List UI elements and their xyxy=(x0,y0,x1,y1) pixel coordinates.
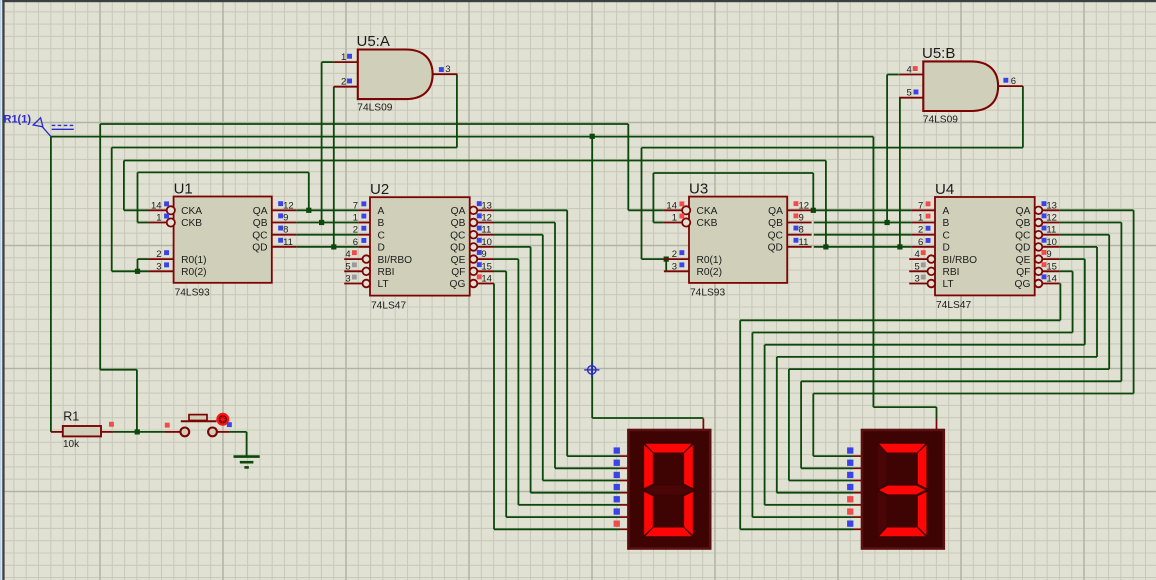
svg-text:9: 9 xyxy=(481,249,486,260)
svg-text:13: 13 xyxy=(481,200,492,211)
wire drop to U3 CKA xyxy=(628,124,664,210)
svg-text:3: 3 xyxy=(156,261,161,272)
logic state indicator DS1 segment e xyxy=(614,496,620,502)
svg-text:4: 4 xyxy=(907,65,912,76)
wire U1 CKA lead xyxy=(124,161,149,211)
wire branch to U1 R0(1) xyxy=(138,259,149,271)
svg-text:QB: QB xyxy=(451,218,466,229)
svg-text:9: 9 xyxy=(799,213,804,224)
pin number 4 (U2) xyxy=(345,249,350,260)
svg-text:U1: U1 xyxy=(174,180,193,197)
wire U3.QD to U1.CKA bus y=160.5 xyxy=(124,160,826,162)
svg-text:5: 5 xyxy=(345,261,350,272)
svg-text:12: 12 xyxy=(481,213,492,224)
wire U1.QA to U2.A xyxy=(296,209,358,211)
svg-text:QD: QD xyxy=(450,243,465,254)
logic state indicator U2 pin 13 xyxy=(477,201,482,206)
svg-text:6: 6 xyxy=(1011,76,1016,87)
wire U5:B pin4 from U3.QB xyxy=(887,75,899,223)
svg-text:12: 12 xyxy=(283,200,294,211)
label U1 xyxy=(174,180,193,197)
DS2 segment pin stubs xyxy=(853,419,937,529)
logic state indicator U2 pin 7 xyxy=(361,201,366,206)
logic state indicator U3 pin 14 xyxy=(679,201,684,206)
svg-text:7: 7 xyxy=(353,200,358,211)
svg-text:A: A xyxy=(943,206,950,217)
pin number 14 (U1) xyxy=(151,200,162,211)
logic state indicator U4 pin 4 xyxy=(921,250,926,255)
svg-text:3: 3 xyxy=(345,274,350,285)
logic state indicator U2 pin 11 xyxy=(477,226,482,231)
wire U4.QE to DS2 segment e xyxy=(765,259,1085,505)
svg-text:3: 3 xyxy=(672,261,677,272)
value 74LS47 (U4) xyxy=(936,300,971,311)
svg-text:QB: QB xyxy=(768,218,783,229)
pin number 15 (U4) xyxy=(1046,261,1057,272)
pin number 11 (U2) xyxy=(481,225,491,236)
wire U1.QD to U2.D xyxy=(296,246,358,248)
pin number 11 (U3) xyxy=(799,237,809,248)
wire U5:A pin2 from U1.QD xyxy=(333,87,335,247)
DS1 segment pin stubs xyxy=(619,419,703,530)
logic state indicator U3 pin 8 xyxy=(794,226,799,231)
svg-text:8: 8 xyxy=(283,225,288,236)
wire U1.QC to U2.C xyxy=(296,234,358,236)
svg-text:74LS93: 74LS93 xyxy=(690,288,725,299)
logic state indicator U1 pin 8 xyxy=(278,226,283,231)
svg-text:QB: QB xyxy=(253,218,268,229)
logic state indicator DS2 segment g xyxy=(847,521,853,527)
svg-text:74LS09: 74LS09 xyxy=(357,103,392,114)
pin number 3 (U4) xyxy=(915,274,920,285)
svg-text:C: C xyxy=(378,230,385,241)
pin number 6 (U5:B) xyxy=(1011,76,1016,87)
value 74LS93 (U1) xyxy=(175,288,210,299)
svg-text:QD: QD xyxy=(768,243,783,254)
net label R1(1) probe xyxy=(4,114,74,137)
pin number 13 (U4) xyxy=(1046,200,1057,211)
logic state indicator U4 pin 11 xyxy=(1042,226,1047,231)
pin number 11 (U1) xyxy=(283,237,293,248)
svg-text:1: 1 xyxy=(918,213,923,224)
svg-text:R0(2): R0(2) xyxy=(697,267,722,278)
svg-text:5: 5 xyxy=(915,261,920,272)
logic state indicator DS1 segment f xyxy=(614,508,620,514)
IC U1 74LS93 counter xyxy=(149,197,297,283)
pin number 6 (U4) xyxy=(918,237,923,248)
junction U3 QA row xyxy=(811,208,816,213)
pin number 9 (U1) xyxy=(283,213,288,224)
svg-text:11: 11 xyxy=(799,237,809,248)
svg-text:6: 6 xyxy=(353,237,358,248)
7-segment display DS1 xyxy=(628,430,710,549)
wire U5:A output drop xyxy=(456,74,458,147)
svg-text:74LS47: 74LS47 xyxy=(371,300,406,311)
pin number 3 (U3) xyxy=(672,261,677,272)
svg-text:A: A xyxy=(378,206,385,217)
value 10k (R1) xyxy=(63,439,80,450)
logic state indicator U2 pin 4 xyxy=(352,250,357,255)
wire U2.QA to DS1 segment a xyxy=(494,210,619,456)
svg-text:1: 1 xyxy=(156,213,161,224)
pin number 7 (U2) xyxy=(353,200,358,211)
svg-text:2: 2 xyxy=(918,225,923,236)
svg-text:13: 13 xyxy=(1046,200,1057,211)
svg-text:QA: QA xyxy=(1016,206,1031,217)
svg-text:B: B xyxy=(943,218,950,229)
logic state indicator U3 pin 11 xyxy=(794,238,799,243)
logic state indicator U4 pin 2 xyxy=(926,226,931,231)
wire U3.QD to U4.D xyxy=(814,246,912,248)
logic state indicator U2 pin 14 xyxy=(477,274,482,279)
svg-text:QC: QC xyxy=(1015,230,1030,241)
pin number 2 (U3) xyxy=(672,249,677,260)
svg-text:LT: LT xyxy=(943,279,954,290)
svg-text:74LS93: 74LS93 xyxy=(175,288,210,299)
svg-text:R1(1): R1(1) xyxy=(4,114,32,126)
svg-text:QA: QA xyxy=(253,206,268,217)
pin number 3 (U2) xyxy=(345,274,350,285)
svg-text:QD: QD xyxy=(252,243,267,254)
svg-text:B: B xyxy=(378,218,385,229)
label U5:A xyxy=(357,33,390,50)
wire U4.QB to DS2 segment b xyxy=(801,223,1121,469)
IC U2 74LS47 BCD to 7-seg decoder xyxy=(344,197,494,295)
wire U2.QD to DS1 segment d xyxy=(494,247,619,493)
AND gate U5:A 74LS09 xyxy=(334,50,458,100)
svg-text:2: 2 xyxy=(156,249,161,260)
logic state indicator U4 pin 13 xyxy=(1042,201,1047,206)
logic state indicator U1 pin 1 xyxy=(164,214,169,219)
label R1 xyxy=(63,409,79,423)
button actuator marker xyxy=(218,414,229,425)
wire U2.QE to DS1 segment e xyxy=(494,259,619,505)
pin number 1 (U5:A) xyxy=(341,52,346,63)
svg-text:14: 14 xyxy=(1046,274,1057,285)
logic state indicator U1 pin 9 xyxy=(278,213,283,218)
logic state indicator DS2 segment a xyxy=(847,447,853,453)
logic state indicator DS1 segment d xyxy=(614,484,620,490)
logic state indicator U1 pin 12 xyxy=(278,201,283,206)
logic state indicator DS2 segment b xyxy=(847,460,853,466)
pin number 12 (U1) xyxy=(283,200,294,211)
wire button to ground xyxy=(229,432,246,457)
logic state indicator U3 pin 2 xyxy=(679,250,684,255)
wire U4.QD to DS2 segment d xyxy=(777,247,1097,493)
origin marker node xyxy=(584,362,599,377)
wire U3.QB to U4.B xyxy=(814,222,912,224)
junction U3 R0 row xyxy=(664,257,669,262)
pin number 1 (U3) xyxy=(672,213,677,224)
svg-text:QF: QF xyxy=(1016,267,1030,278)
ground xyxy=(234,457,260,468)
svg-text:QF: QF xyxy=(451,267,465,278)
wire U5:A pin1 from U1.QB xyxy=(322,62,334,222)
logic state indicator U5:A pin 3 xyxy=(439,67,444,72)
wire U3 QA to CKB loop xyxy=(653,173,813,223)
logic state indicator U4 pin 14 xyxy=(1042,274,1047,279)
logic state indicator DS2 segment c xyxy=(847,472,853,478)
svg-text:QG: QG xyxy=(1015,279,1031,290)
wire U4.QA to DS2 segment a xyxy=(813,210,1133,456)
svg-text:RBI: RBI xyxy=(378,267,395,278)
pin number 8 (U1) xyxy=(283,225,288,236)
wire button node jog xyxy=(100,369,137,371)
svg-text:D: D xyxy=(943,243,950,254)
junction U1 QA row xyxy=(306,208,311,213)
pin number 14 (U4) xyxy=(1046,274,1057,285)
logic state indicator U5:B pin 4 xyxy=(913,66,918,71)
svg-text:10k: 10k xyxy=(63,439,80,450)
svg-text:14: 14 xyxy=(481,274,492,285)
pin number 2 (U2) xyxy=(353,225,358,236)
logic state indicator U2 pin 6 xyxy=(361,238,366,243)
resistor R1 xyxy=(51,426,113,436)
logic state indicator U2 pin 1 xyxy=(361,214,366,219)
wire U2.QB to DS1 segment b xyxy=(494,223,619,469)
svg-text:9: 9 xyxy=(1046,249,1051,260)
logic state indicator U4 pin 3 xyxy=(921,275,926,280)
svg-text:QB: QB xyxy=(1016,218,1031,229)
svg-text:QE: QE xyxy=(451,255,466,266)
svg-text:U5:A: U5:A xyxy=(357,33,390,50)
IC U3 74LS93 counter xyxy=(664,197,812,283)
junction U1 QD row xyxy=(331,244,336,249)
logic state indicator U4 pin 9 xyxy=(1042,250,1047,255)
pin number 4 (U5:B) xyxy=(907,65,912,76)
pin number 14 (U3) xyxy=(666,200,677,211)
svg-text:QA: QA xyxy=(451,206,466,217)
svg-text:14: 14 xyxy=(151,200,162,211)
svg-text:11: 11 xyxy=(481,225,491,236)
wire U5:B out bus y=147.6 xyxy=(642,147,1023,149)
logic state indicator DS1 segment c xyxy=(614,472,620,478)
junction R1 / button node xyxy=(135,429,140,434)
svg-text:R0(1): R0(1) xyxy=(181,255,206,266)
wire U2.QF to DS1 segment f xyxy=(494,271,619,517)
pin number 2 (U5:A) xyxy=(341,77,346,88)
svg-text:4: 4 xyxy=(345,249,350,260)
logic state indicator U4 pin 12 xyxy=(1042,213,1047,218)
logic state indicator U3 pin 12 xyxy=(794,201,799,206)
svg-text:1: 1 xyxy=(353,213,358,224)
AND gate U5:B 74LS09 xyxy=(899,61,1023,111)
svg-text:2: 2 xyxy=(672,249,677,260)
wire U4.QF to DS2 segment f xyxy=(752,271,1072,517)
svg-text:15: 15 xyxy=(1046,261,1057,272)
logic state indicator U2 pin 2 xyxy=(361,226,366,231)
svg-text:15: 15 xyxy=(481,261,492,272)
pin number 9 (U3) xyxy=(799,213,804,224)
wire net R1(1) horizontal bus y=136.6 xyxy=(51,136,874,138)
logic state indicator U2 pin 9 xyxy=(477,250,482,255)
logic state indicator U4 pin 15 xyxy=(1042,262,1047,267)
7-segment display DS2 xyxy=(862,430,944,549)
logic state indicator U1 pin 3 xyxy=(164,262,169,267)
pin number 1 (U4) xyxy=(918,213,923,224)
logic state indicator U2 pin 10 xyxy=(477,238,482,243)
svg-text:1: 1 xyxy=(672,213,677,224)
wire drop to U3 R0(1) xyxy=(642,148,664,260)
pin number 1 (U1) xyxy=(156,213,161,224)
wire to DS2 anode pin xyxy=(873,407,936,419)
pin number 14 (U2) xyxy=(481,274,492,285)
svg-text:QA: QA xyxy=(768,206,783,217)
wire button node riser xyxy=(136,370,138,432)
logic state indicator DS1 segment b xyxy=(614,460,620,466)
svg-text:D: D xyxy=(378,243,385,254)
wire U4.QC to DS2 segment c xyxy=(789,235,1109,481)
wire branch to U3 R0(2) xyxy=(665,259,667,271)
wire drop to display DS2 anode xyxy=(872,137,874,408)
svg-text:8: 8 xyxy=(799,225,804,236)
pin number 3 (U1) xyxy=(156,261,161,272)
junction U3 QD row / U5:B xyxy=(897,244,902,249)
logic state indicator DS2 segment f xyxy=(847,508,853,514)
junction U3 QB row xyxy=(885,220,890,225)
svg-text:CKB: CKB xyxy=(181,218,202,229)
svg-text:14: 14 xyxy=(666,200,677,211)
junction U1 QB row xyxy=(319,220,324,225)
logic state indicator U2 pin 5 xyxy=(352,262,357,267)
logic state indicator DS1 segment a xyxy=(614,447,620,453)
label U2 xyxy=(370,181,389,198)
svg-text:QG: QG xyxy=(450,279,466,290)
logic state indicator U4 pin 1 xyxy=(926,214,931,219)
pin number 9 (U4) xyxy=(1046,249,1051,260)
svg-text:BI/RBO: BI/RBO xyxy=(378,255,413,266)
svg-text:6: 6 xyxy=(918,237,923,248)
wire U3.QA to U4.A xyxy=(814,209,912,211)
svg-text:74LS47: 74LS47 xyxy=(936,300,971,311)
logic state indicator U3 pin 3 xyxy=(679,262,684,267)
logic state indicator U2 pin 12 xyxy=(477,213,482,218)
svg-text:U4: U4 xyxy=(935,181,954,198)
svg-text:BI/RBO: BI/RBO xyxy=(943,255,978,266)
pin number 15 (U2) xyxy=(481,261,492,272)
pin number 4 (U4) xyxy=(915,249,920,260)
svg-text:9: 9 xyxy=(283,213,288,224)
svg-text:CKA: CKA xyxy=(181,206,202,217)
logic state indicator U3 pin 1 xyxy=(679,214,684,219)
value 74LS09 (U5:A) xyxy=(357,103,392,114)
wire drop to display DS1 anode xyxy=(591,137,593,418)
pin number 12 (U2) xyxy=(481,213,492,224)
logic state indicator U4 pin 7 xyxy=(926,201,931,206)
wire R1 pin1 riser xyxy=(50,137,52,432)
wire U5:B pin5 from U3.QD xyxy=(899,98,901,247)
wire to DS1 anode pin xyxy=(592,417,703,419)
logic state indicator U5:A pin 2 xyxy=(347,79,352,84)
wire R1 pin2 to button xyxy=(113,431,165,433)
pin number 6 (U2) xyxy=(353,237,358,248)
IC U4 74LS47 BCD to 7-seg decoder xyxy=(909,197,1059,295)
svg-text:CKB: CKB xyxy=(697,218,718,229)
svg-text:11: 11 xyxy=(283,237,293,248)
pin number 11 (U4) xyxy=(1046,225,1056,236)
value 74LS09 (U5:B) xyxy=(923,115,958,126)
logic state indicator U5:B pin 6 xyxy=(1003,78,1008,83)
svg-text:11: 11 xyxy=(1046,225,1056,236)
logic state indicator R1 pin 2 node xyxy=(109,422,114,427)
wire U1.QB to U2.B xyxy=(296,222,358,224)
logic state indicator U1 pin 2 xyxy=(164,250,169,255)
logic state indicator U5:B pin 5 xyxy=(914,90,919,95)
svg-text:12: 12 xyxy=(1046,213,1057,224)
pin number 2 (U4) xyxy=(918,225,923,236)
svg-text:QC: QC xyxy=(450,230,465,241)
pin number 12 (U3) xyxy=(799,200,810,211)
svg-text:U3: U3 xyxy=(689,180,708,197)
pin number 2 (U1) xyxy=(156,249,161,260)
logic state indicator DS2 segment e xyxy=(847,496,853,502)
svg-text:3: 3 xyxy=(915,274,920,285)
wire U5:A out bus y=147.5 xyxy=(112,147,457,149)
label U3 xyxy=(689,180,708,197)
pin number 5 (U5:B) xyxy=(907,88,912,99)
svg-text:R0(2): R0(2) xyxy=(181,267,206,278)
wire tap on U3 QD row xyxy=(825,161,827,247)
pin number 3 (U5:A) xyxy=(445,64,450,75)
pin number 5 (U2) xyxy=(345,261,350,272)
label U5:B xyxy=(922,45,955,62)
logic state indicator U4 pin 10 xyxy=(1042,238,1047,243)
value 74LS93 (U3) xyxy=(690,288,725,299)
svg-text:74LS09: 74LS09 xyxy=(923,115,958,126)
wire U2.QC to DS1 segment c xyxy=(494,235,619,481)
svg-text:R0(1): R0(1) xyxy=(697,255,722,266)
svg-text:4: 4 xyxy=(915,249,920,260)
svg-text:RBI: RBI xyxy=(943,267,960,278)
svg-text:12: 12 xyxy=(799,200,810,211)
pin number 13 (U2) xyxy=(481,200,492,211)
logic state indicator U5:A pin 1 xyxy=(347,54,352,59)
pin number 1 (U2) xyxy=(353,213,358,224)
pin number 10 (U2) xyxy=(481,237,492,248)
logic state indicator U1 pin 14 xyxy=(164,201,169,206)
svg-text:QC: QC xyxy=(768,230,783,241)
svg-text:QC: QC xyxy=(252,230,267,241)
logic state indicator U4 pin 6 xyxy=(926,238,931,243)
svg-text:U5:B: U5:B xyxy=(922,45,955,62)
pin number 12 (U4) xyxy=(1046,213,1057,224)
pin number 7 (U4) xyxy=(918,200,923,211)
pin number 5 (U4) xyxy=(915,261,920,272)
value 74LS47 (U2) xyxy=(371,300,406,311)
svg-text:2: 2 xyxy=(353,225,358,236)
wire drop to U1 R0(2) xyxy=(112,148,149,272)
svg-text:QD: QD xyxy=(1015,243,1030,254)
wire U1 QA to CKB loop xyxy=(138,172,309,222)
svg-text:10: 10 xyxy=(1046,237,1057,248)
svg-text:C: C xyxy=(943,230,950,241)
logic state indicator button left xyxy=(165,423,170,428)
svg-text:1: 1 xyxy=(341,52,346,63)
svg-text:7: 7 xyxy=(918,200,923,211)
logic state indicator U2 pin 15 xyxy=(477,262,482,267)
wire U4.QG to DS2 segment g xyxy=(740,284,1060,530)
logic state indicator U3 pin 9 xyxy=(794,213,799,218)
logic state indicator DS2 segment d xyxy=(847,484,853,490)
svg-text:10: 10 xyxy=(481,237,492,248)
svg-text:LT: LT xyxy=(378,279,389,290)
wire U5:B output drop xyxy=(1022,86,1024,148)
logic state indicator button right xyxy=(227,422,232,427)
wire U3.QC to U4.C xyxy=(814,234,912,236)
svg-text:CKA: CKA xyxy=(697,206,718,217)
push button xyxy=(165,415,230,437)
wire clock bus y=124 to U3 xyxy=(100,123,628,125)
